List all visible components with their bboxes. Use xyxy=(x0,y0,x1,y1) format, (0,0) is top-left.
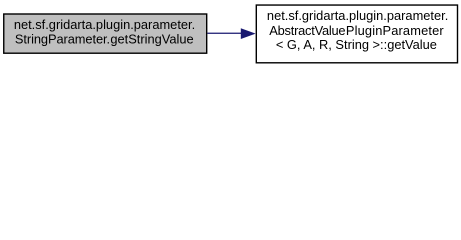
call edge arrowhead xyxy=(241,28,256,39)
caller node box: StringParameter.getStringValue (highlighted grey) xyxy=(4,14,207,53)
svg-text:net.sf.gridarta.plugin.paramet: net.sf.gridarta.plugin.parameter. xyxy=(267,8,448,23)
svg-text:net.sf.gridarta.plugin.paramet: net.sf.gridarta.plugin.parameter. xyxy=(14,17,195,32)
callee node box: AbstractValuePluginParameter::getValue xyxy=(256,5,457,63)
svg-text:StringParameter.: StringParameter. xyxy=(15,32,110,47)
svg-text:AbstractValue: AbstractValue xyxy=(269,23,345,38)
svg-text:getStringValue: getStringValue xyxy=(110,32,193,47)
svg-text:PluginParameter: PluginParameter xyxy=(346,23,444,38)
call edge wire xyxy=(207,32,243,34)
svg-text:< G, A, R, String >::getValue: < G, A, R, String >::getValue xyxy=(276,37,437,52)
